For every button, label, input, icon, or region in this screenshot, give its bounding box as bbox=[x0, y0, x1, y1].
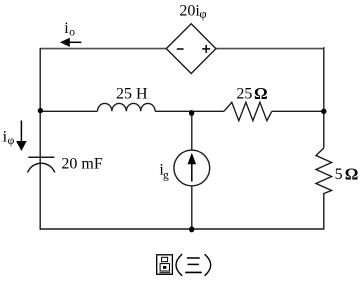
svg-text:Ω: Ω bbox=[345, 165, 359, 184]
label 20 mF bbox=[61, 156, 102, 173]
resistor R2 5 Ω bbox=[316, 148, 332, 194]
wire middle rail center segment bbox=[155, 110, 224, 112]
dependent voltage source U1 20iφ (diamond) bbox=[166, 24, 216, 74]
glyph 圖 bottom bar bbox=[159, 272, 170, 274]
label ig bbox=[159, 161, 169, 181]
current source ig (circle with up arrow) bbox=[174, 150, 210, 186]
svg-text:o: o bbox=[69, 27, 75, 39]
fullwidth left paren （ bbox=[176, 254, 182, 276]
svg-text:g: g bbox=[163, 169, 169, 181]
current arrow io bbox=[60, 38, 81, 47]
label io bbox=[64, 20, 75, 38]
wire top rail left segment bbox=[40, 48, 166, 50]
glyph 圖 inner dot bbox=[163, 266, 166, 269]
svg-text:25 H: 25 H bbox=[116, 86, 148, 103]
wire left rail bbox=[39, 48, 41, 230]
wire middle rail left segment bbox=[40, 110, 97, 112]
wire middle rail right segment bbox=[272, 110, 324, 112]
glyph 圖 outer box bbox=[157, 255, 173, 274]
fullwidth right paren ） bbox=[205, 254, 211, 276]
node C right middle junction bbox=[321, 109, 326, 114]
svg-text:20 mF: 20 mF bbox=[61, 156, 102, 173]
svg-text:Ω: Ω bbox=[254, 84, 268, 103]
caption 圖（三） drawn as strokes bbox=[157, 254, 211, 276]
glyph 三 bottom stroke bbox=[185, 271, 202, 273]
wire ig branch upper bbox=[191, 111, 193, 150]
label iφ bbox=[3, 129, 15, 147]
svg-text:25: 25 bbox=[236, 86, 252, 103]
wire top rail right segment bbox=[216, 48, 324, 50]
capacitor C1 20 mF bbox=[28, 157, 55, 172]
glyph 三 middle stroke bbox=[188, 263, 199, 265]
wire right rail upper segment bbox=[323, 47, 325, 148]
svg-text:φ: φ bbox=[199, 7, 206, 21]
svg-text:20i: 20i bbox=[179, 3, 200, 20]
label 25 H bbox=[116, 86, 148, 103]
glyph 圖 inner top mouth bbox=[162, 257, 168, 261]
svg-text:φ: φ bbox=[8, 135, 15, 147]
node B center middle junction bbox=[189, 110, 194, 116]
inductor L1 25 H bbox=[98, 103, 156, 111]
node D bottom junction bbox=[189, 226, 194, 232]
current arrow iφ bbox=[16, 121, 27, 152]
label 25 Ω bbox=[236, 84, 267, 103]
glyph 圖 inner middle box bbox=[160, 264, 169, 271]
glyph 三 top stroke bbox=[187, 257, 200, 259]
wire right rail lower segment bbox=[323, 193, 325, 229]
svg-text:5: 5 bbox=[335, 166, 343, 183]
node A left middle junction bbox=[38, 108, 43, 113]
wire ig branch lower bbox=[191, 186, 193, 229]
wire bottom rail bbox=[40, 228, 325, 230]
label 20iφ bbox=[179, 3, 206, 21]
label 5 Ω bbox=[335, 165, 359, 184]
resistor R1 25 Ω bbox=[224, 102, 272, 120]
